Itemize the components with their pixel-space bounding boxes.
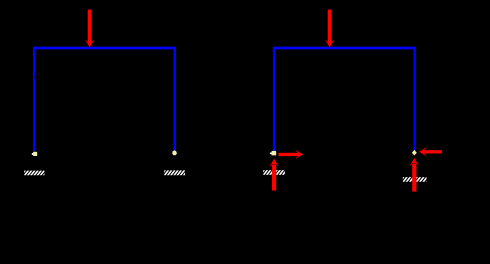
- load arrow P on frame 2 (red, downward onto beam): [325, 10, 334, 48]
- horizontal reaction arrow at support D (red, pointing left): [419, 147, 442, 156]
- load arrow P on frame 1 (red, downward onto beam): [85, 10, 94, 48]
- frame 2 left column: [273, 47, 276, 151]
- pin support B (frame 1 right, pale yellow pin): [172, 150, 177, 155]
- frame 2 beam: [273, 47, 416, 50]
- pin support A white fleck: [32, 153, 34, 155]
- pin support C (frame 2 left, pale yellow pad): [272, 151, 277, 156]
- pin support D (frame 2 right, pale yellow diamond pin): [412, 150, 417, 156]
- frame 2 right column: [413, 47, 416, 151]
- horizontal reaction arrow at support C (red, pointing right): [278, 150, 303, 159]
- pin support C white fleck: [270, 153, 272, 155]
- vertical reaction arrow at support C (red, pointing up): [270, 159, 279, 191]
- small notch/joint mark on frame 1 left column: [35, 76, 37, 78]
- frame 1 right column: [174, 47, 177, 151]
- frame 1 left column: [33, 47, 36, 151]
- vertical reaction arrow at support D (red, pointing up): [410, 158, 419, 192]
- frame 1 beam: [33, 47, 176, 50]
- pin support A (frame 1 left, pale yellow pad): [33, 152, 37, 156]
